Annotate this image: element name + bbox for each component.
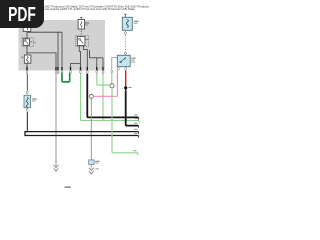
svg-text:PDF: PDF bbox=[8, 3, 36, 26]
svg-text:loss Camba g12M CTL 2x28 GT7cy: loss Camba g12M CTL 2x28 GT7cyl loss Cam… bbox=[45, 7, 136, 11]
